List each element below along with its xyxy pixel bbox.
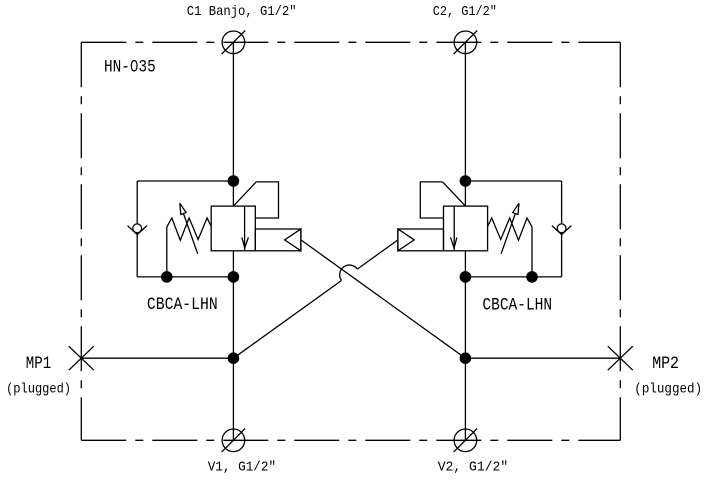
junction node valve 2 drain xyxy=(526,271,538,283)
svg-text:V2, G1/2″: V2, G1/2″ xyxy=(438,460,509,476)
junction node A (MP1 line) xyxy=(228,352,240,364)
junction node valve 1 top xyxy=(228,175,240,187)
valve 1 envelope bottom wire xyxy=(137,276,233,278)
valve 1 envelope top wire xyxy=(137,180,233,182)
valve 2 adjustment arrow xyxy=(501,203,519,254)
svg-text:HN-035: HN-035 xyxy=(104,58,156,78)
svg-text:CBCA-LHN: CBCA-LHN xyxy=(482,295,552,315)
valve 1 pilot passage loop xyxy=(255,182,278,218)
wire valve 2 to V2 xyxy=(464,251,466,440)
port C1 symbol xyxy=(222,31,246,55)
port MP1 symbol (plugged X) xyxy=(69,346,94,370)
check valve CV1 branch wire xyxy=(136,181,138,277)
valve 2 spring drain wire xyxy=(531,227,533,277)
check valve CV2 xyxy=(552,224,572,235)
svg-text:V1, G1/2″: V1, G1/2″ xyxy=(208,460,276,476)
wire valve 1 to V1 xyxy=(232,251,234,440)
svg-text:MP1: MP1 xyxy=(26,354,51,374)
svg-text:MP2: MP2 xyxy=(652,354,679,374)
junction node valve 2 top xyxy=(460,175,472,187)
svg-text:(plugged): (plugged) xyxy=(6,382,71,398)
wire C1 to valve 1 xyxy=(232,42,234,206)
port V1 symbol xyxy=(222,429,246,453)
svg-text:CBCA-LHN: CBCA-LHN xyxy=(147,295,218,315)
wire MP1 branch xyxy=(81,357,233,359)
valve 2 pilot piston xyxy=(398,229,444,251)
check valve CV1 xyxy=(128,224,148,235)
valve 2 envelope bottom wire xyxy=(465,276,561,278)
valve 2 pilot passage loop xyxy=(420,182,443,218)
svg-text:(plugged): (plugged) xyxy=(634,382,702,398)
junction node valve 1 drain xyxy=(161,271,173,283)
port C2 symbol xyxy=(454,31,478,55)
port V2 symbol xyxy=(454,429,478,453)
valve 2 pilot passage diagonal xyxy=(443,182,466,206)
check valve CV2 branch wire xyxy=(561,181,563,277)
port MP2 symbol (plugged X) xyxy=(608,346,633,370)
valve 1 body CBCA-LHN xyxy=(211,206,255,251)
manifold boundary HN-035 (dash-dot border) xyxy=(81,42,620,440)
valve 2 body CBCA-LHN xyxy=(444,206,488,251)
svg-text:C2, G1/2″: C2, G1/2″ xyxy=(433,4,497,20)
junction node valve 2 bottom xyxy=(460,271,472,283)
wire MP2 branch xyxy=(465,357,620,359)
valve 1 spring drain wire xyxy=(166,227,168,277)
pilot wire valve 1 to node B (crossing) xyxy=(301,240,466,358)
valve 2 flow arrow xyxy=(451,206,457,251)
valve 2 envelope top wire xyxy=(465,180,561,182)
wire C2 to valve 2 xyxy=(464,42,466,206)
junction node B (MP2 line) xyxy=(460,352,472,364)
valve 1 pilot piston xyxy=(255,229,301,251)
valve 1 flow arrow xyxy=(242,206,249,251)
pilot wire valve 2 to node A with jump xyxy=(233,240,398,358)
valve 1 spring xyxy=(167,218,211,240)
valve 2 spring xyxy=(488,218,532,240)
valve 1 pilot passage diagonal xyxy=(233,182,256,206)
valve 1 adjustment arrow xyxy=(180,203,198,254)
junction node valve 1 bottom xyxy=(228,271,240,283)
svg-text:C1 Banjo, G1/2″: C1 Banjo, G1/2″ xyxy=(187,4,297,20)
